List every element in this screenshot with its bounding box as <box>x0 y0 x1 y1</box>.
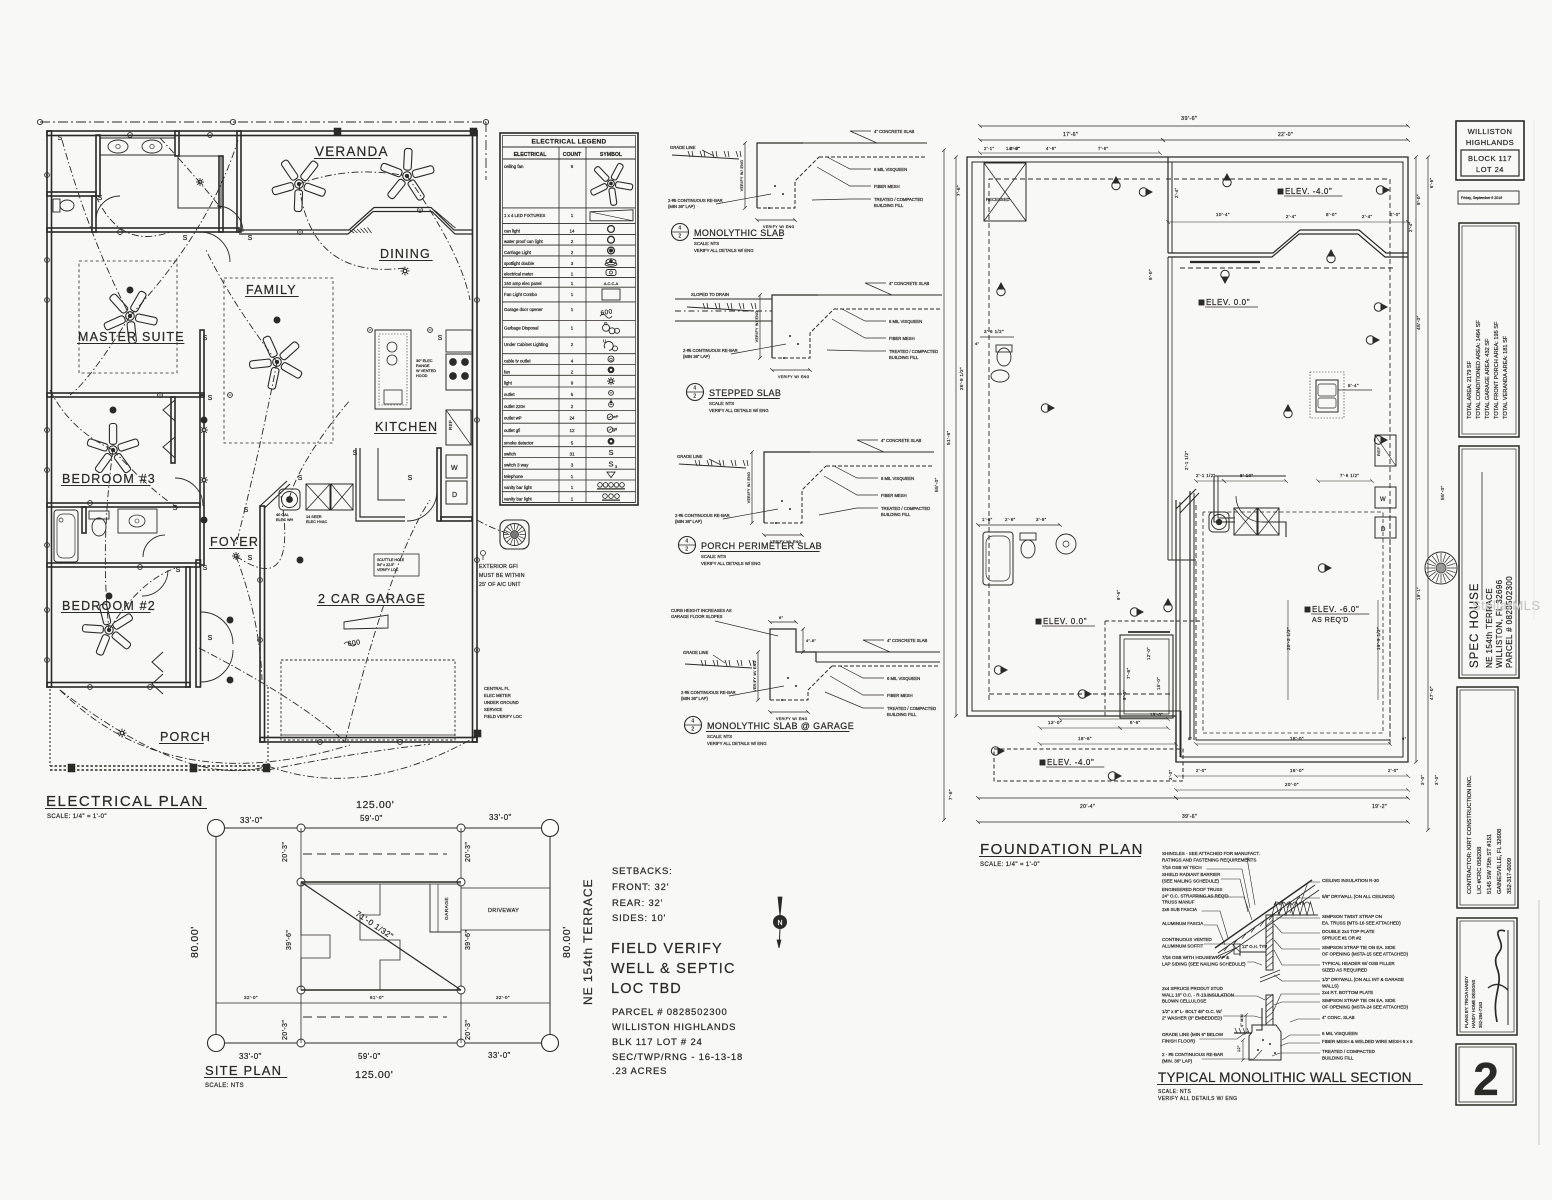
svg-text:TOTAL AREA: 2179 SF: TOTAL AREA: 2179 SF <box>1467 360 1473 419</box>
svg-text:12: 12 <box>569 428 575 433</box>
svg-text:MUST BE WITHIN: MUST BE WITHIN <box>479 573 525 579</box>
svg-text:2-#5 CONTINUOUS RE-BAR: 2-#5 CONTINUOUS RE-BAR <box>668 198 723 203</box>
svg-text:TRUSS MANUF: TRUSS MANUF <box>1162 900 1195 905</box>
svg-text:water proof can light: water proof can light <box>504 239 543 244</box>
svg-text:TREATED / COMPACTED: TREATED / COMPACTED <box>881 506 930 511</box>
svg-text:ELEC WH: ELEC WH <box>276 518 294 522</box>
svg-text:3: 3 <box>571 261 574 266</box>
svg-text:2'-4": 2'-4" <box>1174 188 1179 198</box>
svg-text:CENTRAL FL: CENTRAL FL <box>484 686 510 691</box>
svg-text:BUILDING FILL: BUILDING FILL <box>1322 1055 1354 1060</box>
svg-text:59'-0": 59'-0" <box>360 814 383 823</box>
svg-text:5145 SW 75th ST #151: 5145 SW 75th ST #151 <box>1487 834 1493 894</box>
svg-text:1: 1 <box>571 271 574 276</box>
svg-text:BUILDING FILL: BUILDING FILL <box>887 712 917 717</box>
svg-text:1: 1 <box>571 281 574 286</box>
svg-text:2 - #5 CONTINUOUS RE-BAR: 2 - #5 CONTINUOUS RE-BAR <box>1162 1052 1224 1057</box>
svg-text:2'-0": 2'-0" <box>1196 768 1206 773</box>
svg-text:40 GAL: 40 GAL <box>276 513 289 517</box>
svg-text:54" x 22.5": 54" x 22.5" <box>377 563 395 567</box>
svg-text:3'-0": 3'-0" <box>1168 770 1173 780</box>
svg-text:ELECTRICAL LEGEND: ELECTRICAL LEGEND <box>531 139 606 146</box>
svg-text:SHINGLES - SEE ATTACHED FOR MA: SHINGLES - SEE ATTACHED FOR MANUFACT. <box>1162 851 1260 856</box>
svg-text:2'-0": 2'-0" <box>1390 212 1400 217</box>
svg-text:3'-0": 3'-0" <box>1420 775 1425 785</box>
svg-text:light: light <box>504 380 513 385</box>
svg-text:DINING: DINING <box>380 247 431 261</box>
svg-text:6 MIL VISQUEEN: 6 MIL VISQUEEN <box>889 319 922 324</box>
svg-text:4: 4 <box>685 539 688 545</box>
svg-text:ceiling fan: ceiling fan <box>504 164 524 169</box>
svg-text:HANDY HOME DESIGNS: HANDY HOME DESIGNS <box>1471 979 1476 1028</box>
svg-text:15'-0": 15'-0" <box>1150 712 1163 717</box>
svg-text:S: S <box>353 450 358 457</box>
svg-text:LAP SIDING (SEE NAILING SCHEDU: LAP SIDING (SEE NAILING SCHEDULE) <box>1162 961 1246 966</box>
svg-text:FOYER: FOYER <box>210 535 259 549</box>
svg-text:(MIN 36" LAP): (MIN 36" LAP) <box>668 204 695 209</box>
svg-text:cable tv outlet: cable tv outlet <box>504 359 531 364</box>
svg-text:S: S <box>208 635 213 642</box>
svg-text:NE 154th TERRACE: NE 154th TERRACE <box>581 879 595 1006</box>
svg-text:4": 4" <box>975 341 980 346</box>
svg-text:.23 ACRES: .23 ACRES <box>612 1066 667 1077</box>
svg-text:PLANS BY: TRICIA HANDY: PLANS BY: TRICIA HANDY <box>1464 976 1469 1028</box>
svg-text:8'-0": 8'-0" <box>1326 212 1337 217</box>
svg-text:59'-0": 59'-0" <box>358 1052 381 1061</box>
svg-text:WELL & SEPTIC: WELL & SEPTIC <box>611 961 736 977</box>
svg-text:SCALE: NTS: SCALE: NTS <box>709 401 734 406</box>
svg-text:(MIN 36" LAP): (MIN 36" LAP) <box>683 354 710 359</box>
svg-text:4"-6": 4"-6" <box>806 639 816 643</box>
svg-text:StellarMLS: StellarMLS <box>1472 598 1541 613</box>
svg-text:Fan Light Combo: Fan Light Combo <box>504 292 538 297</box>
svg-text:TOTAL CONDITIONED AREA: 1464 S: TOTAL CONDITIONED AREA: 1464 SF <box>1476 320 1482 419</box>
svg-text:TOTAL FRONT PORCH AREA: 195 SF: TOTAL FRONT PORCH AREA: 195 SF <box>1494 321 1500 419</box>
svg-text:SIMPSON STRAP TIE ON EA. SIDE: SIMPSON STRAP TIE ON EA. SIDE <box>1322 998 1395 1003</box>
svg-text:Garbage Disposal: Garbage Disposal <box>504 326 538 331</box>
svg-text:55'-0": 55'-0" <box>934 477 940 492</box>
svg-text:6": 6" <box>779 615 784 620</box>
svg-text:CEILING INSULATION R-30: CEILING INSULATION R-30 <box>1322 878 1379 883</box>
svg-text:12": 12" <box>1237 1045 1241 1052</box>
svg-text:SCALE: 1/4" = 1'-0": SCALE: 1/4" = 1'-0" <box>47 814 107 820</box>
svg-text:FIBER MESH: FIBER MESH <box>881 493 907 498</box>
svg-text:ELEC HVAC: ELEC HVAC <box>306 520 327 524</box>
svg-text:6": 6" <box>1188 736 1193 741</box>
svg-text:switch 3 way: switch 3 way <box>504 463 529 468</box>
svg-text:7/16 OSB W/ TECH: 7/16 OSB W/ TECH <box>1162 865 1202 870</box>
svg-text:8'-10": 8'-10" <box>1240 473 1253 478</box>
svg-text:ELEV. -4.0": ELEV. -4.0" <box>1285 187 1332 196</box>
svg-text:Carriage Light: Carriage Light <box>504 250 532 255</box>
svg-text:4" CONCRETE SLAB: 4" CONCRETE SLAB <box>874 129 915 134</box>
svg-text:STEPPED SLAB: STEPPED SLAB <box>709 388 781 398</box>
svg-text:SIZED AS REQUIRED: SIZED AS REQUIRED <box>1322 967 1368 972</box>
svg-text:1/2" DRYWALL (ON ALL INT & GAR: 1/2" DRYWALL (ON ALL INT & GARAGE <box>1322 977 1404 982</box>
svg-text:1'-6": 1'-6" <box>982 517 993 522</box>
svg-text:14'-4": 14'-4" <box>1006 146 1019 151</box>
svg-text:HOOD: HOOD <box>416 374 428 378</box>
svg-text:ELEV. 0.0": ELEV. 0.0" <box>1206 298 1250 307</box>
svg-text:FIBER MESH & WELDED WIRE MESH: FIBER MESH & WELDED WIRE MESH 6 x 6 <box>1322 1039 1413 1044</box>
svg-text:4" CONCRETE SLAB: 4" CONCRETE SLAB <box>887 638 928 643</box>
svg-text:125.00': 125.00' <box>356 799 394 811</box>
svg-text:125.00': 125.00' <box>355 1069 393 1081</box>
svg-text:PORCH: PORCH <box>160 730 211 744</box>
svg-text:2: 2 <box>685 547 688 553</box>
svg-text:80.00': 80.00' <box>561 926 573 958</box>
svg-text:14 SEER: 14 SEER <box>306 515 322 519</box>
svg-text:DRIVEWAY: DRIVEWAY <box>488 908 519 914</box>
svg-text:SEC/TWP/RNG - 16-13-18: SEC/TWP/RNG - 16-13-18 <box>612 1052 743 1063</box>
svg-text:S: S <box>208 395 213 402</box>
svg-text:2'-4": 2'-4" <box>1362 214 1372 219</box>
svg-text:electrical meter: electrical meter <box>504 271 534 276</box>
svg-text:outlet: outlet <box>504 392 515 397</box>
svg-text:BUILDING FILL: BUILDING FILL <box>874 203 904 208</box>
svg-text:DOUBLE 2x4 TOP PLATE: DOUBLE 2x4 TOP PLATE <box>1322 929 1374 934</box>
svg-text:33'-0": 33'-0" <box>239 1052 262 1061</box>
svg-text:39'-6": 39'-6" <box>1182 814 1197 820</box>
svg-text:1/2" x 8" L- BOLT 48" O.C. W/: 1/2" x 8" L- BOLT 48" O.C. W/ <box>1162 1009 1222 1014</box>
svg-text:W VENTED: W VENTED <box>416 369 436 373</box>
svg-text:7'-6": 7'-6" <box>1126 667 1132 679</box>
svg-text:19'-1": 19'-1" <box>1416 587 1421 600</box>
svg-text:MASTER SUITE: MASTER SUITE <box>78 330 185 344</box>
svg-text:13'-0": 13'-0" <box>1048 720 1062 725</box>
svg-text:WALL 16" O.C. - R-13 INSULATIO: WALL 16" O.C. - R-13 INSULATION <box>1162 992 1234 997</box>
svg-text:2'-1 1/2": 2'-1 1/2" <box>1184 451 1189 470</box>
svg-text:wP: wP <box>613 415 619 419</box>
svg-text:9'-0": 9'-0" <box>1148 269 1153 280</box>
svg-text:LOT 24: LOT 24 <box>1476 165 1504 174</box>
svg-text:A.C.C.A: A.C.C.A <box>604 281 619 286</box>
svg-text:2x4 SPRUCE PRODUT STUD: 2x4 SPRUCE PRODUT STUD <box>1162 986 1224 991</box>
svg-text:BLK 117 LOT # 24: BLK 117 LOT # 24 <box>612 1037 703 1048</box>
svg-text:SLOPED TO DRAIN: SLOPED TO DRAIN <box>691 292 729 297</box>
svg-text:COUNT: COUNT <box>563 152 582 158</box>
svg-text:3: 3 <box>571 463 574 468</box>
svg-text:SCALE: NTS: SCALE: NTS <box>1158 1089 1191 1095</box>
svg-text:outlet 220v: outlet 220v <box>504 404 526 409</box>
svg-text:2'-0": 2'-0" <box>1388 768 1398 773</box>
svg-text:2 CAR GARAGE: 2 CAR GARAGE <box>318 592 426 606</box>
svg-text:ELEC METER: ELEC METER <box>484 693 511 698</box>
svg-text:W: W <box>1380 497 1386 503</box>
svg-text:2x4 P.T. BOTTOM PLATE: 2x4 P.T. BOTTOM PLATE <box>1322 990 1373 995</box>
svg-text:VERIFY W/ ENG: VERIFY W/ ENG <box>755 311 759 343</box>
svg-text:S: S <box>58 135 63 142</box>
svg-text:VERIFY ALL DETAILS W/ ENG: VERIFY ALL DETAILS W/ ENG <box>707 741 767 746</box>
svg-text:2-#5 CONTINUOUS RE-BAR: 2-#5 CONTINUOUS RE-BAR <box>683 348 738 353</box>
svg-text:1: 1 <box>571 497 574 502</box>
svg-text:SITE PLAN: SITE PLAN <box>205 1063 282 1078</box>
svg-text:S: S <box>183 235 188 242</box>
svg-text:ENGINEERED ROOF TRUSS: ENGINEERED ROOF TRUSS <box>1162 887 1222 892</box>
svg-text:vanity bar light: vanity bar light <box>504 485 533 490</box>
svg-text:HIGHLANDS: HIGHLANDS <box>1466 138 1514 147</box>
svg-text:PARCEL # 0828502300: PARCEL # 0828502300 <box>1505 576 1514 668</box>
svg-text:WILLISTON, FL 32696: WILLISTON, FL 32696 <box>1495 579 1504 668</box>
svg-text:AS REQ'D: AS REQ'D <box>1312 617 1349 624</box>
svg-text:7'-6 1/2": 7'-6 1/2" <box>1340 473 1359 478</box>
svg-text:39'-6": 39'-6" <box>286 930 293 950</box>
svg-text:REF: REF <box>448 420 453 430</box>
svg-text:9'-6": 9'-6" <box>1116 590 1121 600</box>
svg-text:(MIN 36" LAP): (MIN 36" LAP) <box>675 519 702 524</box>
svg-text:18'-0": 18'-0" <box>1290 736 1304 741</box>
svg-text:G: G <box>604 321 608 326</box>
svg-text:outlet gfi: outlet gfi <box>504 428 520 433</box>
svg-text:9: 9 <box>571 380 574 385</box>
svg-text:39'-6": 39'-6" <box>465 930 472 950</box>
svg-text:2-#5 CONTINUOUS RE-BAR: 2-#5 CONTINUOUS RE-BAR <box>681 690 736 695</box>
svg-text:2'-4": 2'-4" <box>1408 222 1413 232</box>
svg-text:15'-0": 15'-0" <box>1156 677 1161 690</box>
svg-text:SPRUCE #1 OR #2: SPRUCE #1 OR #2 <box>1322 935 1362 940</box>
svg-text:EA. TRUSS (MTS-16 SEE ATTACHED: EA. TRUSS (MTS-16 SEE ATTACHED) <box>1322 920 1401 925</box>
svg-text:20'-3": 20'-3" <box>465 1020 472 1040</box>
svg-text:47'-0": 47'-0" <box>1429 686 1434 700</box>
svg-text:(SEE NAILING SCHEDULE): (SEE NAILING SCHEDULE) <box>1162 878 1220 883</box>
svg-text:VERIFY ALL DETAILS W/ ENG: VERIFY ALL DETAILS W/ ENG <box>1158 1096 1237 1102</box>
svg-text:24" O.C. STRAPPING AS REQ'D: 24" O.C. STRAPPING AS REQ'D <box>1162 893 1229 898</box>
svg-text:can light: can light <box>504 228 521 233</box>
svg-text:SCALE: 1/4" = 1'-0": SCALE: 1/4" = 1'-0" <box>980 862 1040 868</box>
svg-text:PORCH PERIMETER SLAB: PORCH PERIMETER SLAB <box>701 541 822 551</box>
svg-text:19'-9 1/2": 19'-9 1/2" <box>1376 627 1381 650</box>
svg-text:TYPICAL HEADER W/ OSB FILLER: TYPICAL HEADER W/ OSB FILLER <box>1322 961 1395 966</box>
svg-text:2: 2 <box>691 727 694 733</box>
svg-text:MONOLYTHIC SLAB @ GARAGE: MONOLYTHIC SLAB @ GARAGE <box>707 721 854 731</box>
svg-text:GAINESVILLE, FL 32608: GAINESVILLE, FL 32608 <box>1497 829 1503 894</box>
svg-text:smoke detector: smoke detector <box>504 441 534 446</box>
svg-text:Garage door opener: Garage door opener <box>504 307 543 312</box>
svg-text:CURB HEIGHT INCREASES AS: CURB HEIGHT INCREASES AS <box>671 608 732 613</box>
svg-text:VERIFY ALL DETAILS W/ ENG: VERIFY ALL DETAILS W/ ENG <box>709 408 769 413</box>
svg-text:33'-0": 33'-0" <box>489 813 512 822</box>
svg-text:GRADE LINE: GRADE LINE <box>677 454 703 459</box>
svg-text:6 MIL VISQUEEN: 6 MIL VISQUEEN <box>887 676 920 681</box>
svg-text:SHIELD RADIANT BARRIER: SHIELD RADIANT BARRIER <box>1162 872 1221 877</box>
svg-text:2: 2 <box>571 369 574 374</box>
svg-text:FIELD VERIFY LOC: FIELD VERIFY LOC <box>484 714 522 719</box>
svg-text:VERIFY W/ ENG: VERIFY W/ ENG <box>747 472 751 504</box>
svg-text:FIBER MESH: FIBER MESH <box>887 693 913 698</box>
svg-text:352-317-6009: 352-317-6009 <box>1507 858 1513 894</box>
svg-text:W: W <box>451 465 458 472</box>
svg-text:WILLISTON HIGHLANDS: WILLISTON HIGHLANDS <box>612 1022 736 1033</box>
svg-text:S: S <box>203 335 208 342</box>
svg-text:D: D <box>452 492 457 499</box>
svg-text:D: D <box>1381 527 1386 533</box>
svg-text:WILLISTON: WILLISTON <box>1468 127 1513 136</box>
svg-text:MONOLYTHIC SLAB: MONOLYTHIC SLAB <box>694 228 785 238</box>
svg-text:150 amp elec panel: 150 amp elec panel <box>504 281 542 286</box>
svg-text:TYPICAL MONOLITHIC WALL SECTIO: TYPICAL MONOLITHIC WALL SECTION <box>1158 1070 1412 1085</box>
svg-text:2'-4": 2'-4" <box>1286 214 1296 219</box>
svg-text:19'-2": 19'-2" <box>1372 804 1387 810</box>
svg-text:10'-4": 10'-4" <box>1216 212 1230 217</box>
svg-text:20'-3": 20'-3" <box>465 842 472 862</box>
svg-text:BLOCK 117: BLOCK 117 <box>1468 154 1512 163</box>
svg-text:Under Cabinet Lighting: Under Cabinet Lighting <box>504 342 549 347</box>
svg-text:S: S <box>248 235 253 242</box>
svg-text:SYMBOL: SYMBOL <box>600 152 623 158</box>
svg-text:1: 1 <box>571 307 574 312</box>
svg-text:6": 6" <box>1402 736 1407 741</box>
svg-text:TREATED / COMPACTED: TREATED / COMPACTED <box>1322 1049 1376 1054</box>
svg-text:WALLS): WALLS) <box>1322 983 1339 988</box>
svg-text:GRADE LINE (MIN 6" BELOW: GRADE LINE (MIN 6" BELOW <box>1162 1032 1224 1037</box>
svg-text:S: S <box>176 567 181 574</box>
svg-text:51'-6": 51'-6" <box>946 430 952 445</box>
svg-text:VERIFY ALL DETAILS W/ ENG: VERIFY ALL DETAILS W/ ENG <box>694 248 754 253</box>
svg-text:SCALE: NTS: SCALE: NTS <box>707 734 732 739</box>
svg-text:outlet wP: outlet wP <box>504 416 522 421</box>
svg-text:FIBER MESH: FIBER MESH <box>889 336 915 341</box>
svg-text:6: 6 <box>571 164 574 169</box>
svg-text:OF OPENING (MSTA-24 SEE ATTACH: OF OPENING (MSTA-24 SEE ATTACHED) <box>1322 1004 1409 1009</box>
svg-text:45'-0": 45'-0" <box>1416 315 1422 330</box>
svg-text:ELEV. -6.0": ELEV. -6.0" <box>1312 605 1359 614</box>
svg-text:REF: REF <box>1376 447 1381 456</box>
svg-text:33'-0": 33'-0" <box>240 816 263 825</box>
svg-text:KITCHEN: KITCHEN <box>375 420 438 434</box>
svg-text:600: 600 <box>600 308 613 317</box>
svg-text:12" O.H. TYP: 12" O.H. TYP <box>1242 944 1267 949</box>
svg-text:FRONT: 32': FRONT: 32' <box>612 882 669 893</box>
svg-text:1: 1 <box>571 213 574 218</box>
svg-text:U: U <box>603 338 607 343</box>
svg-text:S: S <box>248 555 253 562</box>
svg-text:352-284-7163: 352-284-7163 <box>1478 1001 1483 1028</box>
svg-text:PARCEL # 0828502300: PARCEL # 0828502300 <box>612 1007 728 1018</box>
svg-text:BUILDING FILL: BUILDING FILL <box>881 512 911 517</box>
svg-text:SCALE: NTS: SCALE: NTS <box>205 1083 244 1089</box>
svg-text:S: S <box>408 475 413 482</box>
svg-text:55'-0": 55'-0" <box>1440 485 1446 500</box>
svg-text:FAMILY: FAMILY <box>246 283 297 297</box>
svg-text:6 MIL VISQUEEN: 6 MIL VISQUEEN <box>881 476 914 481</box>
svg-text:2: 2 <box>571 342 574 347</box>
svg-text:22'-0": 22'-0" <box>1278 132 1293 138</box>
svg-text:30" ELEC: 30" ELEC <box>416 359 433 363</box>
svg-text:20'-3 1/2": 20'-3 1/2" <box>1286 627 1291 650</box>
svg-text:2: 2 <box>571 239 574 244</box>
svg-text:gfi: gfi <box>613 428 617 432</box>
svg-text:spotlight double: spotlight double <box>504 261 535 266</box>
svg-text:4: 4 <box>678 226 681 232</box>
svg-text:14: 14 <box>569 228 575 233</box>
svg-text:2-#5 CONTINUOUS RE-BAR: 2-#5 CONTINUOUS RE-BAR <box>675 513 730 518</box>
svg-text:VERIFY W/ ENG: VERIFY W/ ENG <box>740 160 744 192</box>
svg-text:vanity bar light: vanity bar light <box>504 497 533 502</box>
svg-text:2: 2 <box>571 250 574 255</box>
svg-text:4: 4 <box>693 386 696 392</box>
svg-text:6'-6": 6'-6" <box>1429 178 1434 188</box>
svg-text:SIDES: 10': SIDES: 10' <box>612 913 666 924</box>
svg-text:S: S <box>608 448 613 457</box>
svg-text:SERVICE: SERVICE <box>484 707 503 712</box>
svg-text:S: S <box>608 459 613 468</box>
svg-text:S: S <box>438 335 443 342</box>
svg-text:39'-6": 39'-6" <box>1181 116 1197 122</box>
svg-text:6 MIL VISQUEEN: 6 MIL VISQUEEN <box>874 167 907 172</box>
svg-text:LOC TBD: LOC TBD <box>611 981 682 997</box>
svg-text:BEDROOM #2: BEDROOM #2 <box>62 599 156 613</box>
svg-text:ELEV. -4.0": ELEV. -4.0" <box>1047 758 1094 767</box>
svg-text:61'-0": 61'-0" <box>370 995 384 1000</box>
svg-text:1: 1 <box>571 326 574 331</box>
svg-text:fan: fan <box>504 369 511 374</box>
svg-text:SCALE: NTS: SCALE: NTS <box>694 241 719 246</box>
svg-text:2: 2 <box>1473 1053 1499 1105</box>
svg-text:3'-6 1/2": 3'-6 1/2" <box>984 329 1004 334</box>
svg-text:2x6 SUB FASCIA: 2x6 SUB FASCIA <box>1162 907 1197 912</box>
svg-text:2: 2 <box>571 404 574 409</box>
svg-text:4" CONCRETE SLAB: 4" CONCRETE SLAB <box>881 438 922 443</box>
svg-text:8'-4": 8'-4" <box>1348 383 1359 388</box>
svg-text:24: 24 <box>569 416 575 421</box>
svg-text:TREATED / COMPACTED: TREATED / COMPACTED <box>874 197 923 202</box>
svg-text:2: 2 <box>693 394 696 400</box>
svg-text:5: 5 <box>571 441 574 446</box>
svg-text:VERIFY ALL DETAILS W/ ENG: VERIFY ALL DETAILS W/ ENG <box>701 561 761 566</box>
svg-text:BLOWN CELLULOSE: BLOWN CELLULOSE <box>1162 999 1206 1004</box>
svg-text:32'-0": 32'-0" <box>244 995 258 1000</box>
svg-text:OF OPENING (MSTA-15 SEE ATTACH: OF OPENING (MSTA-15 SEE ATTACHED) <box>1322 951 1409 956</box>
svg-text:FIELD VERIFY: FIELD VERIFY <box>611 941 723 957</box>
svg-text:7'-6": 7'-6" <box>1098 146 1108 151</box>
svg-text:VERIFY W/ ENG: VERIFY W/ ENG <box>753 660 757 692</box>
svg-text:S: S <box>173 505 178 512</box>
svg-text:BUILDING FILL: BUILDING FILL <box>889 355 919 360</box>
svg-text:20'-3": 20'-3" <box>282 842 289 862</box>
svg-text:ELEV. 0.0": ELEV. 0.0" <box>1043 617 1087 626</box>
svg-text:SETBACKS:: SETBACKS: <box>612 866 673 877</box>
svg-text:1: 1 <box>571 292 574 297</box>
svg-text:TOTAL GARAGE AREA: 432 SF: TOTAL GARAGE AREA: 432 SF <box>1485 338 1491 419</box>
svg-text:1 x 4 LED FIXTURES: 1 x 4 LED FIXTURES <box>504 213 545 218</box>
svg-text:FIBER MESH: FIBER MESH <box>874 184 900 189</box>
svg-text:TREATED / COMPACTED: TREATED / COMPACTED <box>889 349 938 354</box>
svg-text:S: S <box>98 195 103 202</box>
svg-text:4'-6": 4'-6" <box>1046 146 1056 151</box>
svg-text:GARAGE: GARAGE <box>444 897 450 920</box>
svg-text:CONTINUOUS VENTED: CONTINUOUS VENTED <box>1162 937 1213 942</box>
svg-text:S: S <box>203 565 208 572</box>
svg-text:GRADE LINE: GRADE LINE <box>670 145 696 150</box>
svg-text:4" CONCRETE SLAB: 4" CONCRETE SLAB <box>889 281 930 286</box>
svg-text:EXTERIOR GFI: EXTERIOR GFI <box>479 564 518 570</box>
svg-text:1: 1 <box>571 485 574 490</box>
svg-text:26'-9 1/2": 26'-9 1/2" <box>959 367 964 390</box>
svg-text:20'-0": 20'-0" <box>1285 782 1299 787</box>
svg-text:16'-0": 16'-0" <box>1290 768 1304 773</box>
svg-text:RANGE: RANGE <box>416 364 430 368</box>
svg-text:SCALE: NTS: SCALE: NTS <box>701 554 726 559</box>
svg-text:(MIN 36" LAP): (MIN 36" LAP) <box>681 696 708 701</box>
svg-text:Friday, September 6 2019: Friday, September 6 2019 <box>1461 196 1502 200</box>
svg-text:31: 31 <box>569 452 575 457</box>
svg-text:Q: Q <box>609 357 613 362</box>
svg-text:telephone: telephone <box>504 474 523 479</box>
svg-text:TOTAL VERANDA AREA: 181 SF: TOTAL VERANDA AREA: 181 SF <box>1503 335 1509 419</box>
svg-text:GARAGE FLOOR SLOPES: GARAGE FLOOR SLOPES <box>671 614 723 619</box>
svg-text:32'-0": 32'-0" <box>496 995 510 1000</box>
svg-text:2'-6": 2'-6" <box>1005 517 1016 522</box>
